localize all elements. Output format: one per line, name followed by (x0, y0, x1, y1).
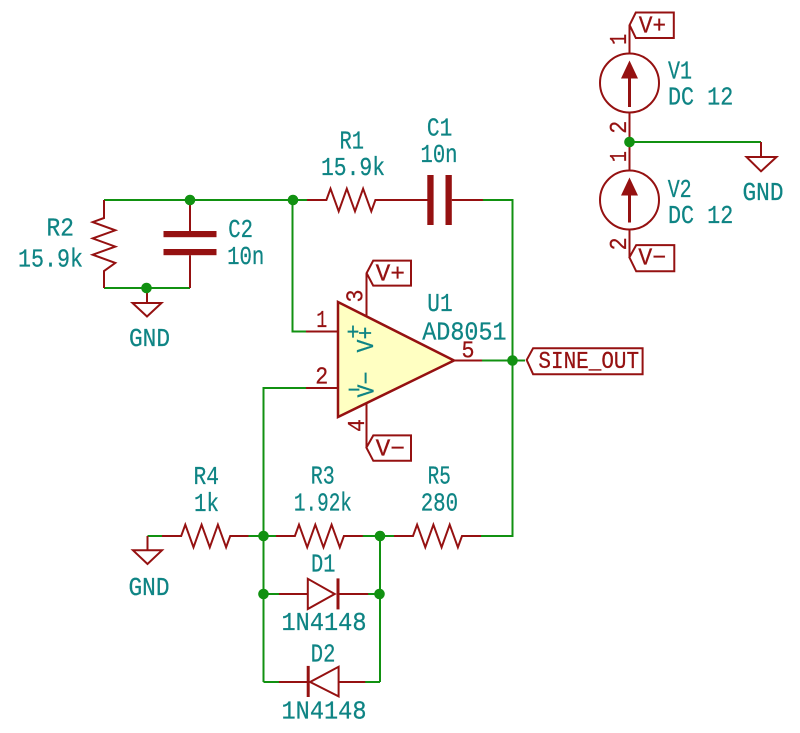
svg-text:D1: D1 (311, 550, 335, 580)
svg-text:10n: 10n (421, 140, 458, 170)
wire GND to R4 (148, 535, 164, 537)
svg-text:15.9k: 15.9k (18, 245, 83, 275)
junction node D1 left (258, 589, 269, 600)
wire from node B down to pin 1 (293, 200, 307, 332)
svg-text:1k: 1k (194, 489, 219, 519)
capacitor C2 (164, 200, 217, 288)
wire D2 right stub (365, 681, 380, 683)
wire D1 left stub (264, 593, 280, 595)
svg-text:4: 4 (345, 419, 372, 432)
svg-text:15.9k: 15.9k (321, 153, 385, 183)
diode D1 (279, 578, 368, 609)
svg-text:V+: V+ (376, 262, 405, 289)
junction node (C2 top) (185, 195, 196, 206)
junction node C (R4/R3) (258, 531, 269, 542)
svg-text:GND: GND (743, 178, 784, 208)
capacitor C1 (427, 175, 483, 225)
svg-text:R1: R1 (340, 127, 365, 157)
svg-text:D2: D2 (311, 640, 336, 670)
resistor R1 (307, 189, 429, 212)
junction node E (R3/R5) (375, 531, 386, 542)
wire D2 left stub (264, 681, 280, 683)
junction node D1 right (374, 589, 385, 600)
svg-text:C1: C1 (427, 114, 452, 144)
resistor R3 (276, 525, 363, 548)
svg-text:280: 280 (421, 489, 458, 519)
resistor R2 (93, 200, 116, 288)
svg-text:GND: GND (129, 573, 170, 603)
svg-text:2: 2 (607, 237, 634, 250)
svg-text:GND: GND (129, 324, 170, 354)
power flag V+ (op-amp) (367, 261, 411, 286)
op-amp U1 pin 3 (366, 274, 368, 317)
svg-text:AD8051: AD8051 (422, 318, 506, 348)
ground (left of R4) (133, 536, 162, 564)
op-amp U1 pin 5 (454, 360, 482, 362)
svg-text:2: 2 (607, 121, 634, 134)
svg-text:1.92k: 1.92k (294, 489, 352, 519)
svg-text:DC 12: DC 12 (668, 82, 733, 112)
voltage source V2 (600, 142, 659, 257)
resistor R5 (394, 525, 481, 548)
svg-text:V+: V+ (639, 14, 667, 41)
global label SINE_OUT (527, 348, 643, 374)
svg-text:V+: V+ (354, 327, 381, 353)
svg-text:1: 1 (607, 34, 634, 45)
svg-text:SINE_OUT: SINE_OUT (538, 349, 639, 376)
op-amp U1 body (338, 302, 454, 417)
op-amp U1 pin 1 (306, 331, 338, 333)
svg-text:C2: C2 (228, 215, 253, 245)
wire D1 right stub (368, 593, 380, 595)
op-amp U1 pin 2 (306, 387, 338, 389)
wire R4 to node C (248, 535, 277, 537)
wire V1/V2 midpoint to GND (630, 141, 762, 143)
power flag V- (below V2) (629, 245, 674, 271)
wire top-left horizontal net (104, 199, 308, 201)
wire C1 right to output column down to R5 (481, 200, 513, 536)
wire op-amp output to SINE_OUT (482, 360, 525, 362)
ground (below C2/R2) (133, 288, 162, 317)
wire bottom of R2/C2 (104, 287, 190, 289)
ground (right of V1/V2) (747, 142, 777, 171)
svg-text:DC 12: DC 12 (668, 201, 733, 231)
svg-text:R2: R2 (47, 214, 75, 244)
voltage source V1 (600, 25, 659, 142)
wire node E down through D1 to D2 (379, 536, 381, 682)
junction node output (507, 355, 518, 366)
junction node (GND below C2) (141, 283, 152, 294)
svg-text:10n: 10n (227, 242, 264, 272)
svg-text:1N4148: 1N4148 (282, 608, 367, 638)
op-amp U1 pin 4 (366, 403, 368, 448)
junction node V1/V2 mid (624, 137, 635, 148)
svg-text:V−: V− (376, 437, 405, 464)
svg-text:U1: U1 (427, 289, 452, 319)
junction node B (R1 left) (288, 195, 299, 206)
svg-text:R3: R3 (311, 462, 335, 492)
wire R3 to node E (362, 535, 395, 537)
svg-text:1: 1 (316, 308, 327, 335)
resistor R4 (162, 525, 249, 548)
svg-text:V−: V− (638, 246, 666, 273)
svg-text:1: 1 (607, 151, 634, 162)
svg-text:R5: R5 (428, 462, 451, 492)
diode D2 (279, 666, 365, 697)
power flag V+ (above V1) (630, 13, 674, 39)
svg-text:V−: V− (355, 372, 382, 398)
power flag V- (op-amp) (366, 435, 411, 460)
svg-text:R4: R4 (194, 462, 220, 492)
wire from pin 2 down to R3/R4 node and D rows (264, 388, 307, 682)
svg-text:2: 2 (315, 365, 328, 392)
svg-text:1N4148: 1N4148 (282, 697, 367, 727)
svg-text:3: 3 (344, 290, 371, 303)
